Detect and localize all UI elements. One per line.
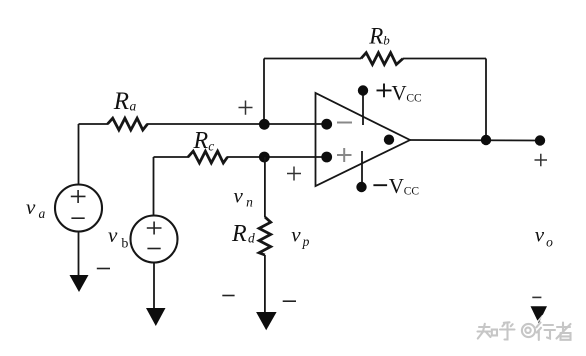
resistor Rb [361, 53, 403, 65]
resistor Rd [259, 217, 271, 255]
svg-text:d: d [248, 231, 255, 246]
wire: output line [410, 139, 540, 142]
svg-text:R: R [368, 24, 383, 49]
svg-text:c: c [208, 138, 214, 153]
label minus sign left of Rd ground (vn minus) [222, 295, 234, 297]
svg-text:a: a [39, 206, 46, 221]
node dot: non-inverting input pin [321, 152, 332, 163]
va minus sign [71, 217, 84, 219]
node dot: output terminal [535, 135, 545, 145]
node dot: +Vcc terminal [358, 85, 368, 95]
svg-text:R: R [231, 221, 247, 247]
va plus sign [71, 190, 86, 203]
svg-text:v: v [26, 195, 36, 219]
wire: Rd top lead [264, 157, 266, 217]
wire: feedback top right horizontal [403, 58, 486, 60]
wire: -Vcc stem [361, 151, 363, 183]
label plus sign at vo terminal [535, 154, 548, 167]
svg-text:b: b [121, 236, 128, 251]
node dot: inverting input pin [321, 119, 332, 130]
svg-text:V: V [392, 81, 407, 105]
ground arrow at vo [531, 306, 548, 323]
voltage source vb circle [131, 216, 178, 263]
node dot: -Vcc terminal [356, 182, 366, 192]
node dot: inverting node junction [259, 119, 270, 130]
wire: feedback right vertical [485, 59, 487, 141]
svg-text:CC: CC [406, 92, 422, 104]
label minus sign right of va ground [97, 268, 110, 270]
svg-text:v: v [108, 223, 118, 247]
wire: feedback left vertical [263, 59, 265, 125]
vb minus sign [147, 248, 160, 250]
node dot: output pin inside triangle [384, 135, 394, 145]
voltage source va circle [55, 185, 102, 232]
vb plus sign [147, 222, 162, 235]
wire: inverting input line left segment (va top to Ra) [79, 123, 109, 125]
resistor Rc [188, 151, 228, 163]
svg-text:n: n [246, 195, 253, 210]
wire: vb bottom lead [153, 263, 155, 310]
node dot: output feedback junction [481, 135, 491, 145]
node dot: non-inverting node junction [259, 152, 270, 163]
op-amp plus sign (non-inverting marker) [337, 148, 352, 162]
op-amp U1 triangle [316, 93, 411, 186]
wire: feedback top left horizontal [264, 58, 361, 60]
watermark slash over vo ground arrow [535, 315, 544, 325]
label minus sign right of Rd ground (vp minus) [283, 300, 296, 302]
wire: Ra to op-amp inverting dot [147, 123, 326, 125]
svg-text:p: p [302, 234, 310, 249]
resistor Ra [108, 118, 148, 130]
wire: +Vcc stem [362, 92, 364, 125]
svg-text:v: v [234, 183, 244, 207]
svg-text:v: v [535, 222, 545, 246]
wire: va vertical drop [78, 124, 80, 185]
op-amp minus sign (inverting marker) [337, 122, 352, 124]
ground arrow at va [70, 275, 89, 292]
ground arrow at Rd [256, 312, 277, 330]
wire: Rc left segment (vb top to Rc) [154, 156, 190, 158]
label minus sign at vo bottom [532, 296, 541, 298]
svg-text:a: a [130, 99, 137, 114]
wire: Rc to op-amp non-inverting dot [227, 156, 326, 158]
svg-text:R: R [113, 88, 129, 115]
svg-text:b: b [383, 33, 390, 48]
label -Vcc minus sign [373, 184, 387, 186]
svg-text:CC: CC [404, 185, 420, 197]
label plus sign at vn node [239, 101, 253, 115]
wire: vb vertical drop [153, 157, 155, 216]
svg-text:v: v [291, 223, 301, 247]
label +Vcc plus sign [377, 84, 392, 98]
wire: va bottom lead [78, 232, 80, 277]
svg-text:o: o [546, 235, 553, 250]
wire: Rd bottom lead [264, 255, 266, 313]
svg-text:R: R [193, 128, 209, 154]
label plus sign at vp node [287, 167, 301, 181]
svg-text:V: V [389, 174, 404, 198]
ground arrow at vb [146, 308, 166, 326]
watermark: zhihu @xingzhe [478, 322, 571, 340]
